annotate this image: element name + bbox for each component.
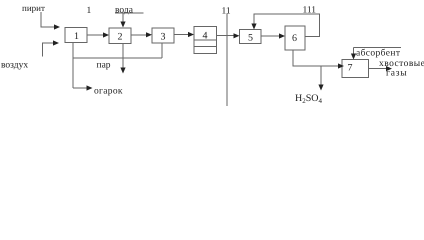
svg-text:пар: пар	[97, 61, 111, 71]
arrow хвостовые газы	[386, 66, 392, 71]
svg-text:6: 6	[292, 33, 297, 44]
wire collector	[73, 57, 162, 59]
svg-text:газы: газы	[386, 69, 407, 79]
svg-text:5: 5	[248, 33, 253, 44]
wire block1 bottom down	[72, 43, 74, 89]
svg-text:огарок: огарок	[94, 87, 123, 97]
wire block4 to block5	[217, 35, 236, 37]
arrow into block 4	[188, 32, 194, 37]
block 7	[342, 60, 369, 78]
wire block2 bottom down	[122, 44, 124, 69]
block 4	[194, 27, 217, 54]
svg-text:2: 2	[118, 32, 123, 43]
block 3	[152, 28, 174, 43]
wire block6 bottom to block7	[293, 50, 340, 66]
svg-text:1: 1	[87, 6, 92, 16]
wire block3 bottom down	[161, 43, 163, 58]
wire recycle loop block6 to block5	[254, 14, 320, 37]
arrow пирит into block 1	[54, 24, 60, 29]
wire хвостовые газы outlet	[369, 68, 388, 70]
svg-text:4: 4	[203, 31, 208, 42]
arrow recycle into block 5 top	[251, 24, 256, 30]
arrow абсорбент into block 7 top	[351, 54, 356, 60]
arrow воздух into block 1	[53, 40, 59, 45]
wire block1 to block2	[87, 34, 105, 36]
arrow into block 3	[146, 32, 152, 37]
wire огарок outlet	[73, 87, 88, 89]
svg-text:H2SO4: H2SO4	[295, 93, 323, 105]
svg-text:7: 7	[348, 63, 353, 74]
wire пирит flag	[41, 12, 56, 27]
arrow into block 5	[234, 33, 240, 38]
svg-text:3: 3	[161, 31, 166, 42]
arrow H2SO4 down	[318, 85, 323, 91]
wire абсорбент overline	[354, 46, 402, 48]
section divider line	[226, 14, 228, 106]
wire вода underline	[115, 12, 144, 14]
arrow пар down	[120, 68, 125, 74]
svg-text:11: 11	[222, 7, 231, 17]
wire вода drop	[122, 13, 124, 23]
arrow into block 7	[338, 63, 344, 68]
wire H2SO4 branch	[320, 66, 322, 86]
svg-text:вода: вода	[115, 5, 134, 15]
arrow огарок	[87, 85, 93, 90]
arrow into block 2	[103, 32, 109, 37]
svg-text:абсорбент: абсорбент	[356, 48, 401, 58]
arrow into block 6	[279, 33, 285, 38]
wire воздух inlet	[43, 43, 55, 57]
wire block3 to block4	[174, 34, 190, 36]
svg-text:воздух: воздух	[1, 61, 28, 71]
block 5	[240, 30, 262, 44]
block 6	[285, 26, 305, 50]
wire block2 to block3	[131, 34, 148, 36]
arrow вода into block 2 top	[120, 22, 125, 28]
block 1	[65, 28, 87, 43]
wire block5 to block6	[261, 35, 281, 37]
svg-text:1: 1	[74, 31, 79, 42]
block 2	[109, 28, 131, 44]
svg-text:пирит: пирит	[22, 3, 45, 13]
wire абсорбент drop	[353, 47, 355, 55]
